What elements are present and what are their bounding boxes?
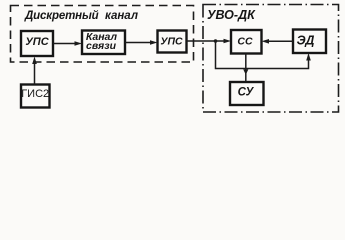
svg-text:СУ: СУ (238, 87, 255, 99)
wire: Канал связи to УПС#2 (125, 40, 158, 45)
svg-text:УПС: УПС (160, 36, 183, 48)
wire: УПС#1 to Канал связи (53, 41, 82, 46)
svg-text:связи: связи (86, 40, 117, 52)
svg-text:УПС: УПС (25, 36, 49, 48)
svg-text:ГИС2: ГИС2 (21, 88, 49, 100)
wire: ЭД to СС (262, 39, 294, 44)
wire: junction down, right, up into ЭД (216, 41, 311, 69)
block ГИС2 (21, 85, 50, 108)
svg-text:УВО-ДК: УВО-ДК (207, 8, 256, 22)
svg-text:СС: СС (237, 36, 253, 48)
block СУ (230, 82, 264, 105)
block УПС #1 (21, 31, 53, 56)
dash-dot box: УВО-ДК boundary (203, 5, 339, 113)
wire: СС down to СУ (crosses horizontal wire, arrowhead midway) (243, 54, 248, 82)
svg-text:канал: канал (105, 10, 138, 22)
block ЭД (293, 30, 326, 54)
svg-text:Дискретный: Дискретный (24, 10, 99, 22)
block УПС #2 (158, 31, 187, 53)
dashed box: Дискретный канал (discrete channel boundary) (11, 6, 194, 63)
paper background (0, 0, 345, 123)
block СС (231, 30, 262, 54)
junction node on УПС#2-СС wire (214, 39, 218, 43)
svg-text:ЭД: ЭД (297, 34, 315, 48)
block Канал связи (82, 31, 125, 55)
wire: УПС#2 to СС (crosses both boundaries) (187, 39, 232, 44)
wire: ГИС2 up to УПС#1 (32, 57, 37, 85)
